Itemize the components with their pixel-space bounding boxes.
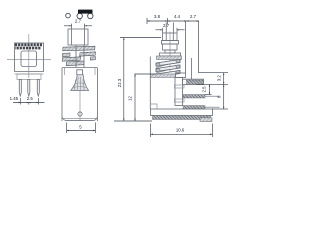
cone spring inside [71, 75, 89, 91]
pin 1 [19, 80, 21, 97]
spring seat plate [151, 74, 176, 78]
svg-text:2.5: 2.5 [202, 86, 207, 93]
post between terminals 1-2 [175, 85, 185, 88]
coil spring back strand 3 [157, 72, 180, 78]
coil spring back strand 2 [156, 67, 180, 74]
bottom edge with chamfers [62, 117, 98, 121]
top terminal bar [187, 80, 204, 84]
plunger lower collar [160, 53, 181, 56]
svg-text:3.8: 3.8 [154, 14, 161, 19]
small circle on base [78, 112, 82, 116]
stack plate right 2 [80, 52, 96, 56]
stack plate right 3 [90, 57, 95, 60]
switch schematic symbol: left contact circle [66, 13, 71, 18]
flange [157, 56, 182, 60]
spring washer stack: plate 1 [63, 46, 95, 51]
body outline [15, 43, 44, 72]
knurled top strip [15, 44, 17, 47]
dimension 22.3 [123, 38, 125, 122]
baseline extension [114, 120, 152, 122]
dimension 8 [223, 84, 225, 109]
svg-text:2.7: 2.7 [75, 19, 82, 24]
plunger collar [162, 41, 179, 45]
dimension line pins [13, 102, 45, 104]
body right wall [191, 58, 193, 80]
switch schematic symbol: contact bar [78, 10, 93, 14]
coil spring back strand 1 [156, 61, 180, 68]
top right terminal block [183, 79, 204, 84]
svg-text:2.5: 2.5 [27, 96, 34, 101]
horizontal centerline [7, 59, 51, 61]
body lower steps [15, 71, 44, 73]
svg-text:12: 12 [127, 96, 132, 101]
svg-text:1.45: 1.45 [10, 96, 19, 101]
right extension lines [199, 72, 229, 74]
svg-text:3.2: 3.2 [217, 75, 222, 82]
coil spring turn 3 [156, 71, 180, 78]
spring wire end left [156, 63, 160, 66]
svg-text:22.3: 22.3 [117, 78, 122, 87]
switch schematic symbol: terminal circles [77, 13, 82, 18]
center line [79, 91, 81, 121]
stem knob [77, 70, 83, 75]
seat step [176, 73, 186, 78]
svg-text:10.6: 10.6 [176, 128, 185, 133]
svg-text:4.4: 4.4 [174, 14, 181, 19]
body inner bottom line [64, 118, 97, 120]
vertical centerline [28, 34, 30, 78]
svg-text:2.7: 2.7 [190, 14, 197, 19]
dimension 5 (base width) [66, 123, 68, 134]
dimension 3.2 [223, 73, 225, 85]
body left wall [149, 57, 151, 110]
dimension 10.6 [150, 124, 152, 138]
base hatched strip [153, 116, 211, 120]
plunger button top [163, 33, 178, 41]
terminal 3 [183, 106, 205, 110]
stem lines through stack [75, 45, 77, 68]
terminal 3 lead line [205, 106, 220, 108]
plunger centerline [169, 32, 171, 78]
spring wire end right [176, 59, 180, 62]
extension lines down from top row [185, 21, 187, 73]
inner rounded square [21, 51, 37, 67]
stack plate center 4 [66, 61, 84, 66]
pin 2 [28, 80, 30, 97]
coil spring turn 1 [156, 60, 180, 67]
plunger mid [163, 44, 178, 50]
center guide [175, 78, 183, 106]
terminal 2 lead line [205, 95, 219, 97]
dimension 2.5 [209, 84, 211, 94]
bottom plate [151, 109, 213, 116]
base mounting tab [200, 118, 212, 122]
button cap [68, 29, 88, 45]
terminal 2 [183, 95, 205, 99]
coil spring turn 2 [156, 65, 180, 72]
pin 3 [37, 80, 39, 97]
dimension 12 [135, 73, 157, 75]
left wall step [150, 104, 157, 109]
body outline [62, 68, 98, 122]
stack plate left 2 [63, 53, 71, 57]
plunger stem [165, 50, 175, 53]
top dimension row [147, 20, 199, 22]
body inner wall lines [64, 68, 66, 76]
stack plate left 3 [62, 57, 80, 61]
post between terminals 2-3 [175, 99, 185, 102]
22.3 extension line top [120, 37, 161, 39]
